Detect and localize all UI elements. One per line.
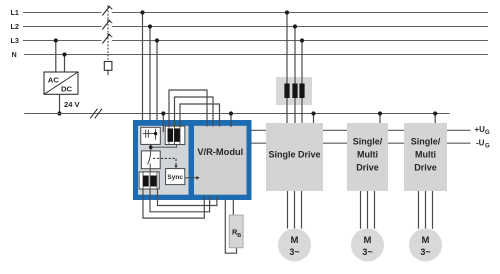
fuse F1 — [104, 62, 112, 76]
junction L3 module tap — [155, 38, 159, 42]
junction L2 drop — [293, 24, 297, 28]
drive A2 Single/Multi Drive — [347, 123, 388, 191]
wire contactor to transformer T2 — [149, 169, 151, 172]
wire L3 to power supply — [55, 41, 57, 73]
svg-text:Sync: Sync — [167, 174, 183, 181]
svg-text:M: M — [364, 235, 372, 246]
junction tap A2 — [378, 111, 382, 115]
motor M1 — [278, 229, 311, 262]
svg-text:B: B — [237, 233, 241, 239]
wires drive A3 to motor M3 — [419, 191, 433, 229]
wire 24V output — [59, 94, 61, 113]
net +UG — [252, 125, 491, 136]
net L1 — [11, 8, 489, 17]
junction L2 module tap — [148, 24, 152, 28]
svg-text:Single Drive: Single Drive — [268, 149, 320, 159]
junction bus tap left — [161, 111, 165, 115]
motor M2 — [351, 229, 384, 262]
svg-text:24 V: 24 V — [64, 100, 81, 109]
wire bus tap to drive A3 — [434, 114, 436, 124]
svg-text:AC: AC — [48, 75, 60, 84]
wire loop T1 to V/R c — [180, 104, 220, 127]
supply module left cell — [138, 126, 189, 195]
switch Q1 pole L2 — [102, 20, 112, 30]
svg-text:3~: 3~ — [289, 247, 299, 257]
svg-text:DC: DC — [61, 85, 73, 94]
wire filter to contactor — [150, 144, 152, 151]
switch Q1 mechanical link — [107, 7, 109, 62]
junction filter output — [149, 145, 153, 149]
control line contactor to sync (dashed) — [153, 158, 176, 165]
wire RB feed — [232, 200, 234, 215]
svg-text:M: M — [422, 235, 430, 246]
svg-text:Single/: Single/ — [411, 136, 441, 146]
svg-text:Multi: Multi — [415, 149, 436, 159]
wire loop T1 to V/R a — [169, 90, 207, 127]
transformer T1 — [165, 126, 185, 144]
junction L3 tap — [54, 38, 58, 42]
wire L3 drop to module — [156, 41, 158, 129]
wire loop T2 to V/R a — [143, 189, 204, 218]
wire N to power supply — [64, 55, 66, 73]
contactor K1 — [141, 151, 160, 169]
supply module frame (blue) — [133, 120, 252, 200]
wires drive A1 to motor M1 — [288, 191, 302, 229]
svg-text:3~: 3~ — [362, 247, 372, 257]
svg-text:G: G — [485, 130, 490, 136]
wire sync to V/R — [185, 177, 197, 179]
power supply U1 AC/DC — [44, 72, 78, 94]
wire filter node to transformer T1 — [151, 145, 177, 148]
svg-text:V/R-Modul: V/R-Modul — [197, 147, 243, 157]
EMC filter F2 — [141, 127, 161, 144]
arrow into V/R — [196, 176, 199, 180]
V/R-Modul U2 — [194, 126, 247, 195]
wire loop T2 to V/R b — [150, 189, 210, 212]
net N — [12, 50, 489, 59]
svg-text:+U: +U — [475, 125, 486, 134]
junction L1 drop — [285, 10, 289, 14]
line choke L4 — [276, 77, 312, 105]
drive A3 Single/Multi Drive — [404, 123, 447, 191]
choke L4 core bars — [284, 84, 304, 99]
svg-text:Multi: Multi — [357, 149, 378, 159]
brake resistor RB — [229, 215, 243, 248]
wire bus tap to V/R — [230, 114, 232, 128]
junction bus tap V/R — [229, 111, 233, 115]
svg-text:Drive: Drive — [356, 162, 379, 172]
junction tap A3 — [433, 111, 437, 115]
wire loop T1 to V/R b — [175, 97, 214, 127]
svg-text:L3: L3 — [11, 36, 19, 45]
wire bus tap to drive A1 — [313, 114, 315, 124]
junction tap A1 — [311, 111, 315, 115]
sync unit — [166, 169, 185, 185]
svg-text:L1: L1 — [11, 8, 19, 17]
junction 24V bus — [57, 111, 61, 115]
wire bus tap to drive A2 — [379, 114, 381, 124]
wire L1 drop to drive A1 — [286, 13, 288, 124]
wires drive A2 to motor M2 — [361, 191, 375, 229]
svg-text:3~: 3~ — [420, 247, 430, 257]
svg-text:N: N — [12, 50, 17, 59]
bus break symbol — [90, 109, 102, 119]
svg-text:-U: -U — [476, 139, 485, 148]
wire RB return — [225, 200, 236, 253]
arrow into sync — [174, 165, 177, 168]
wire L1 drop to module — [142, 13, 144, 129]
svg-text:Single/: Single/ — [353, 136, 383, 146]
wire L2 drop to drive A1 — [294, 27, 296, 124]
wire bus tap to left cell — [162, 114, 164, 133]
transformer T2 — [139, 172, 159, 189]
wire L2 drop to module — [149, 27, 151, 129]
svg-text:L2: L2 — [11, 22, 19, 31]
net L3 — [11, 36, 489, 45]
wire loop T2 to V/R c — [158, 189, 217, 206]
svg-text:G: G — [485, 144, 490, 150]
net L2 — [11, 22, 489, 31]
svg-text:Drive: Drive — [414, 162, 437, 172]
junction L3 drop — [300, 38, 304, 42]
switch Q1 pole L1 — [102, 6, 112, 16]
wire DC control bus — [24, 113, 449, 115]
svg-text:M: M — [291, 235, 299, 246]
drive A1 Single Drive — [266, 123, 323, 191]
junction N tap — [62, 52, 66, 56]
wire L3 drop to drive A1 — [301, 41, 303, 124]
motor M3 — [409, 229, 442, 262]
switch Q1 pole L3 — [102, 34, 112, 44]
junction L1 module tap — [140, 10, 144, 14]
net -UG — [252, 139, 491, 150]
